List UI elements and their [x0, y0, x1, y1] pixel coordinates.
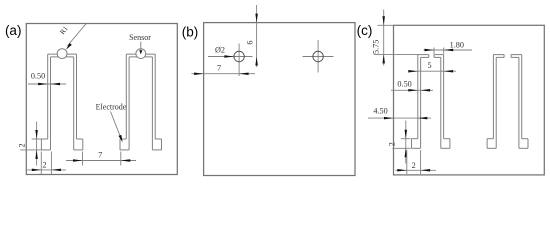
- dim 5 text (c): [428, 61, 432, 70]
- Sensor label text: [129, 33, 151, 42]
- svg-text:2: 2: [18, 143, 27, 147]
- Electrode leader arrow: [111, 112, 123, 143]
- sensor pad circle on electrode A-left: [57, 49, 67, 59]
- dim 7 text (b): [217, 63, 221, 72]
- dim 6 text (b): [246, 41, 255, 45]
- sensor pad circle on electrode A-right: [136, 49, 146, 59]
- svg-text:(c): (c): [357, 23, 373, 38]
- svg-text:1.80: 1.80: [450, 41, 464, 50]
- dim 2 vertical extension lines (a): [20, 139, 41, 150]
- svg-text:7: 7: [217, 63, 221, 72]
- dim 2 vertical extension lines (c): [392, 139, 410, 149]
- hole B-right circle: [313, 51, 323, 61]
- dim 0.50 text (a): [31, 72, 45, 81]
- svg-text:Electrode: Electrode: [96, 102, 127, 111]
- dim 2 horizontal line and arrows (a): [27, 169, 66, 172]
- svg-text:0.50: 0.50: [397, 80, 411, 89]
- svg-text:2: 2: [388, 142, 397, 146]
- dim 2 horizontal extension lines (a): [41, 152, 51, 175]
- electrode C-left U-trace with top gap and feet: [412, 55, 450, 149]
- hole B-left crosshair: [208, 44, 253, 77]
- dim 7 text (a): [98, 150, 102, 159]
- dim 0.50 line and arrows (a): [28, 83, 66, 86]
- svg-text:(a): (a): [5, 23, 22, 38]
- electrode C-right U-trace with top gap and feet: [487, 55, 528, 149]
- svg-text:0.50: 0.50: [31, 72, 45, 81]
- dim 0.50 line and arrows (c): [391, 89, 433, 92]
- svg-text:(b): (b): [182, 25, 199, 40]
- dim Ø2 leader arrow (b): [224, 55, 234, 58]
- svg-text:Sensor: Sensor: [129, 33, 151, 42]
- substrate square B outline: [204, 23, 355, 176]
- hole B-left circle: [234, 51, 244, 61]
- dim 2 vertical text (c): [388, 142, 397, 146]
- electrode A-right U-trace with feet: [120, 54, 162, 150]
- dim 7 line and arrows (b): [192, 72, 256, 75]
- panel label (c): [357, 23, 373, 38]
- radius callout R1 text: [58, 24, 70, 36]
- dim 2 horizontal text (c): [412, 161, 416, 170]
- dim 1.80 text (c): [450, 41, 464, 50]
- svg-text:5: 5: [428, 61, 432, 70]
- dim Ø2 text (b): [215, 45, 225, 54]
- dim 2 vertical arrows (a): [35, 122, 38, 166]
- dim 2 vertical arrows (c): [405, 121, 408, 164]
- dim 5.75 text (c): [371, 40, 380, 54]
- svg-text:Ø2: Ø2: [215, 45, 225, 54]
- radius callout R1 leader: [66, 23, 87, 50]
- svg-text:6: 6: [246, 41, 255, 45]
- dim 5 line and arrows (c): [408, 70, 456, 73]
- svg-text:2: 2: [42, 161, 46, 170]
- panel label (a): [5, 23, 22, 38]
- svg-text:5.75: 5.75: [371, 40, 380, 54]
- dim 2 vertical text (a): [18, 143, 27, 147]
- dim 1.80 line and arrows (c): [424, 49, 473, 52]
- dim 1.80 extension lines (c): [434, 48, 444, 55]
- dim 2 horizontal line and arrows (c): [396, 169, 437, 172]
- dim 7 line and arrows (a): [66, 159, 136, 162]
- Electrode label text: [96, 102, 127, 111]
- dim 2 horizontal text (a): [42, 161, 46, 170]
- dim 6 line and arrows (b): [255, 5, 258, 67]
- dim 4.50 text (c): [373, 106, 387, 115]
- dim 2 horizontal extension lines (c): [407, 150, 421, 174]
- panel label (b): [182, 25, 199, 40]
- dim 0.50 text (c): [397, 80, 411, 89]
- hole B-right crosshair: [303, 40, 334, 73]
- svg-text:4.50: 4.50: [373, 106, 387, 115]
- svg-text:2: 2: [412, 161, 416, 170]
- dim 5.75 line and arrows (c): [382, 10, 385, 66]
- substrate square A outline: [26, 24, 177, 175]
- Sensor leader arrow: [139, 42, 142, 55]
- substrate square C outline: [394, 25, 545, 175]
- dim 5.75 extension lines (c): [374, 25, 418, 54]
- dim 7 extension lines (a): [83, 152, 121, 166]
- dim 4.50 line and arrows (c): [368, 117, 431, 120]
- svg-text:7: 7: [98, 150, 102, 159]
- electrode A-left U-trace with feet: [41, 54, 82, 150]
